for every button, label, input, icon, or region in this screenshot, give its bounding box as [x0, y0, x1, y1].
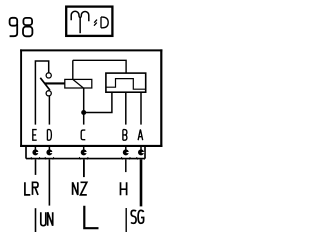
harness wire B upper: [125, 160, 127, 173]
icon: headlamp lens D: [101, 17, 108, 28]
relay outline box: [20, 49, 162, 147]
terminal stub D: [48, 147, 50, 150]
wire B: [125, 92, 127, 124]
page number 98: [10, 18, 33, 37]
moving contact circle: [46, 91, 51, 96]
component icon box: [66, 7, 112, 36]
cavity ticks E: [31, 157, 40, 160]
pin letter C: [81, 130, 85, 140]
harness wire A (thick): [140, 160, 143, 207]
harness wire C upper: [83, 160, 85, 178]
wire D from moving contact: [48, 96, 50, 125]
terminal stub A: [140, 147, 142, 150]
wire A: [140, 92, 142, 124]
harness wire E lower: [35, 208, 37, 232]
cavity ticks D: [45, 157, 54, 160]
terminal socket C: [81, 149, 87, 155]
resistor block: [106, 73, 146, 92]
pin letter A: [138, 130, 143, 140]
wire label UN: [41, 212, 53, 226]
fixed contact circle: [46, 73, 51, 78]
harness wire B lower: [125, 208, 127, 232]
junction node: [81, 110, 86, 115]
pin letter B: [123, 130, 127, 141]
linkage to coil: [45, 82, 65, 84]
terminal socket D: [46, 149, 52, 155]
pin letter D: [47, 130, 51, 141]
top wire to resistor: [73, 60, 126, 73]
pin letter E: [33, 130, 37, 141]
relay coil box: [65, 79, 92, 88]
coil diagonal: [73, 79, 84, 88]
harness wire D: [48, 160, 50, 206]
wire E to fixed contact: [35, 61, 48, 125]
harness wire C lower with bend: [84, 206, 98, 228]
branch wire to resistor bottom: [84, 92, 112, 112]
terminal socket E: [32, 149, 38, 155]
terminal socket A: [138, 149, 144, 155]
coil top lead: [72, 60, 74, 79]
icon: double-arc coil symbol: [71, 11, 89, 33]
icon: lamp beam dashes: [94, 20, 97, 26]
harness wire E upper: [35, 160, 37, 175]
resistor inner step line: [106, 79, 146, 90]
terminal stub B: [125, 147, 127, 150]
cavity ticks B: [121, 157, 130, 160]
terminal stub C: [83, 147, 85, 150]
cavity ticks A: [137, 157, 146, 160]
switch arm: [40, 78, 50, 90]
connector band: [26, 147, 145, 159]
wire label H: [121, 182, 127, 195]
terminal socket B: [123, 149, 129, 155]
wire label SG: [131, 210, 144, 223]
wire label NZ: [73, 182, 87, 195]
cavity ticks C: [79, 157, 88, 160]
wire C from coil: [83, 88, 85, 125]
terminal stub E: [34, 147, 36, 150]
wire label LR: [25, 182, 38, 195]
